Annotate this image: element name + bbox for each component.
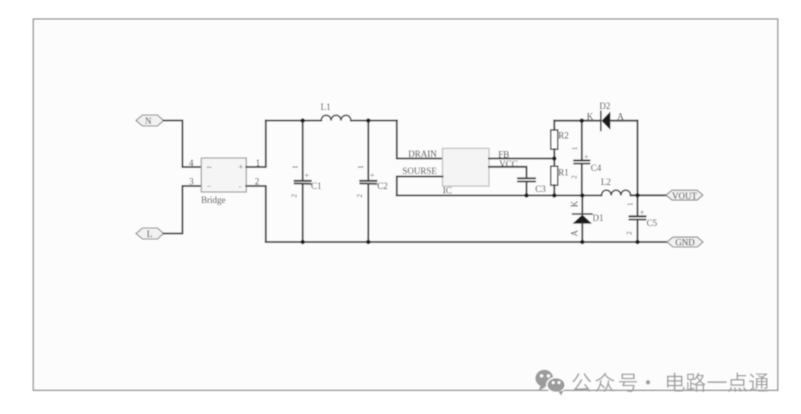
capacitor C4 xyxy=(574,121,589,196)
svg-text:FB: FB xyxy=(498,149,509,159)
svg-text:C5: C5 xyxy=(647,218,658,228)
wire L2 to VOUT connector xyxy=(631,194,667,196)
IC U1 xyxy=(443,148,490,186)
svg-text:1: 1 xyxy=(291,165,299,169)
svg-text:GND: GND xyxy=(675,238,695,248)
svg-text:VCC: VCC xyxy=(499,159,518,169)
capacitor C2 xyxy=(360,121,376,242)
svg-text:1: 1 xyxy=(571,146,579,150)
svg-text:K: K xyxy=(570,200,580,207)
svg-text:+: + xyxy=(370,171,375,180)
svg-text:L2: L2 xyxy=(601,177,611,187)
svg-text:R1: R1 xyxy=(558,167,569,177)
svg-text:IC: IC xyxy=(443,186,452,196)
wire IC SOURSE to mid rail xyxy=(397,177,443,196)
junction bottom rail / C1 xyxy=(301,240,305,244)
svg-text:VOUT: VOUT xyxy=(672,191,697,201)
diode D1 xyxy=(573,195,592,242)
inductor L1 xyxy=(321,115,351,120)
wire D2 anode down to VOUT node xyxy=(637,121,639,196)
svg-text:L: L xyxy=(147,229,153,239)
svg-text:~: ~ xyxy=(207,163,212,173)
svg-text:N: N xyxy=(145,116,152,126)
watermark text 公众号·电路一点通 xyxy=(572,373,769,392)
svg-text:4: 4 xyxy=(189,158,194,168)
wire top rail left xyxy=(266,120,321,122)
junction top rail / C2 xyxy=(366,118,370,122)
connector VOUT xyxy=(666,190,703,200)
junction mid rail / C3 xyxy=(524,193,528,197)
junction FB / R divider xyxy=(552,156,556,160)
svg-text:A: A xyxy=(617,111,624,121)
inductor L2 xyxy=(602,190,631,195)
svg-text:K: K xyxy=(587,111,594,121)
junction top rail / C1 xyxy=(301,118,305,122)
svg-text:2: 2 xyxy=(571,175,579,179)
resistor R1 xyxy=(551,166,558,195)
capacitor C1 xyxy=(295,121,311,242)
svg-text:C1: C1 xyxy=(311,181,322,191)
svg-text:+: + xyxy=(640,208,645,217)
svg-text:1: 1 xyxy=(626,202,634,206)
svg-text:1: 1 xyxy=(256,158,261,168)
junction bottom rail / D1 xyxy=(580,240,584,244)
svg-text:Bridge: Bridge xyxy=(201,195,226,205)
junction bottom rail / C5 xyxy=(635,240,639,244)
wire IC FB to R divider xyxy=(489,158,554,160)
svg-text:1: 1 xyxy=(357,165,365,169)
wire mid rail xyxy=(397,194,602,196)
junction D2 cathode / C4 xyxy=(580,119,584,123)
junction VOUT node xyxy=(635,193,639,197)
svg-text:+: + xyxy=(238,162,243,172)
junction bottom rail / C2 xyxy=(366,240,370,244)
junction mid rail / C4 D1 xyxy=(580,193,584,197)
svg-text:2: 2 xyxy=(255,176,259,186)
svg-text:C2: C2 xyxy=(377,181,388,191)
watermark wechat icon xyxy=(535,370,565,396)
wire bridge pin 2 to bottom rail xyxy=(246,186,265,242)
svg-text:2: 2 xyxy=(356,194,364,198)
svg-text:DRAIN: DRAIN xyxy=(408,149,437,159)
svg-text:L1: L1 xyxy=(321,102,331,112)
wire top rail to IC DRAIN xyxy=(397,121,443,159)
svg-text:+: + xyxy=(584,152,589,161)
wire bridge pin 1 to top rail xyxy=(246,121,265,167)
capacitor C3 xyxy=(518,178,535,195)
svg-text:C4: C4 xyxy=(591,163,602,173)
resistor R2 xyxy=(551,121,558,167)
svg-text:C3: C3 xyxy=(535,184,546,194)
junction mid rail / R1 xyxy=(552,193,556,197)
wire N to bridge pin 4 xyxy=(164,121,202,168)
wire L to bridge pin 3 xyxy=(164,186,202,234)
wire R2 top to diode D2 xyxy=(554,120,600,122)
wire top rail right xyxy=(351,120,397,122)
svg-text:3: 3 xyxy=(189,176,194,186)
svg-text:+: + xyxy=(305,171,310,180)
svg-text:A: A xyxy=(570,229,580,236)
diode D2 xyxy=(601,111,638,130)
svg-text:2: 2 xyxy=(626,231,634,235)
svg-text:R2: R2 xyxy=(558,130,569,140)
bridge rectifier U Bridge xyxy=(201,158,246,192)
connector N xyxy=(136,115,164,126)
svg-text:2: 2 xyxy=(291,194,299,198)
connector GND xyxy=(667,237,703,247)
capacitor C5 xyxy=(630,195,646,242)
connector L xyxy=(136,228,164,239)
svg-text:D2: D2 xyxy=(599,101,610,111)
svg-text:−: − xyxy=(207,182,212,191)
svg-text:SOURSE: SOURSE xyxy=(402,166,437,176)
wire IC VCC to C3 xyxy=(489,167,527,178)
svg-text:D1: D1 xyxy=(593,213,604,223)
wire bottom rail xyxy=(266,241,667,243)
